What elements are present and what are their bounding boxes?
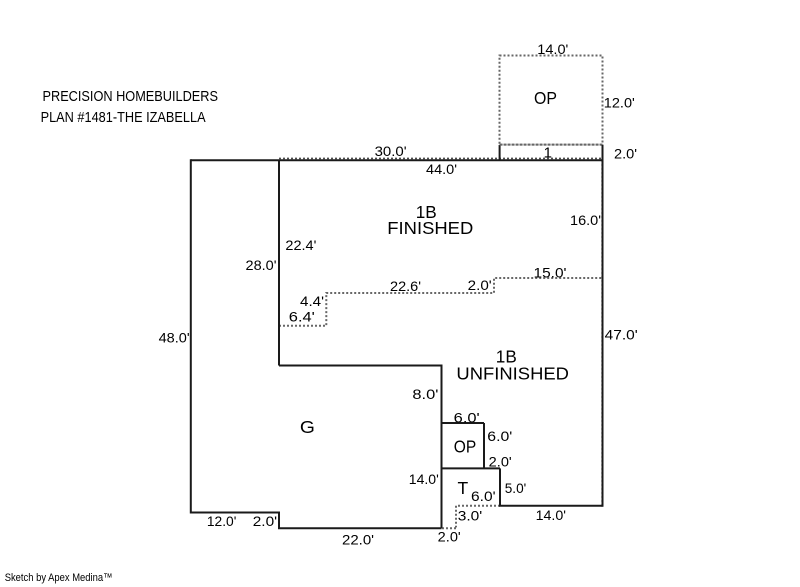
svg-text:6.0': 6.0' [471,488,496,504]
svg-text:1: 1 [544,145,552,162]
svg-text:OP: OP [454,436,477,456]
svg-text:G: G [300,417,315,437]
svg-text:2.0': 2.0' [468,277,492,293]
svg-text:30.0': 30.0' [375,143,407,159]
svg-text:2.0': 2.0' [614,146,637,162]
svg-text:2.0': 2.0' [438,529,461,545]
svg-text:PLAN #1481-THE IZABELLA: PLAN #1481-THE IZABELLA [41,109,206,126]
svg-text:14.0': 14.0' [537,41,568,57]
svg-text:3.0': 3.0' [458,508,483,524]
svg-text:6.0': 6.0' [487,428,512,444]
svg-text:2.0': 2.0' [489,454,512,470]
svg-text:5.0': 5.0' [505,480,527,496]
svg-text:6.4': 6.4' [289,309,315,325]
svg-text:14.0': 14.0' [536,507,566,523]
svg-text:2.0': 2.0' [253,513,277,529]
svg-text:PRECISION HOMEBUILDERS: PRECISION HOMEBUILDERS [43,88,219,105]
svg-text:Sketch by Apex Medina™: Sketch by Apex Medina™ [5,572,113,584]
svg-text:16.0': 16.0' [570,212,601,228]
svg-text:12.0': 12.0' [207,513,237,529]
svg-text:47.0': 47.0' [605,327,638,343]
svg-text:44.0': 44.0' [426,161,457,177]
svg-text:22.4': 22.4' [285,237,316,253]
svg-text:FINISHED: FINISHED [387,218,473,238]
svg-text:28.0': 28.0' [246,257,277,273]
svg-text:22.0': 22.0' [342,532,374,548]
svg-text:22.6': 22.6' [390,278,421,294]
svg-text:6.0': 6.0' [454,410,480,426]
svg-text:OP: OP [534,88,557,108]
svg-text:12.0': 12.0' [604,94,635,110]
svg-text:UNFINISHED: UNFINISHED [456,364,569,384]
svg-text:48.0': 48.0' [159,329,190,345]
svg-text:8.0': 8.0' [412,386,438,402]
svg-text:14.0': 14.0' [409,471,439,487]
svg-text:T: T [458,478,469,498]
svg-text:15.0': 15.0' [534,265,567,281]
svg-text:4.4': 4.4' [300,293,324,309]
